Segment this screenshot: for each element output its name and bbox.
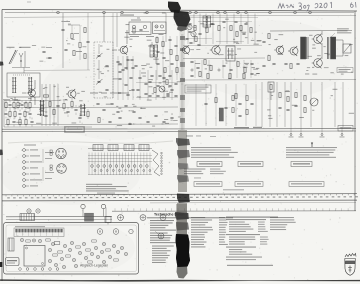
label box oscillator note [185, 85, 211, 93]
text 13.5kHz label [234, 127, 249, 128]
electrolytic C30 [219, 108, 223, 121]
text col3 body [229, 222, 245, 223]
wire T2 connections [112, 49, 117, 51]
board tuning capacitor square [24, 246, 45, 267]
value labels row [90, 93, 98, 94]
drive block 2 [85, 213, 94, 221]
pulley P1 [27, 209, 31, 213]
fold band dial crossing [177, 194, 190, 203]
IF transformer Tr4 [226, 46, 235, 61]
wire IF verticals [187, 14, 189, 45]
IF left bias parts [185, 37, 188, 39]
wave trap parts [84, 28, 86, 33]
boxed label oscillator freq [65, 127, 84, 132]
component row below Tr1 [63, 104, 65, 109]
dial cord top boxes [88, 148, 152, 150]
transistor T1 mixer [29, 90, 36, 97]
wire y70 horizontal [24, 69, 90, 71]
DIN socket B1 [56, 148, 66, 158]
board label box GE [6, 258, 20, 266]
potentiometer P1 [310, 98, 318, 106]
dial cord comb structure [88, 155, 152, 157]
wire output stage [270, 30, 352, 32]
transistor T2 [120, 46, 128, 54]
wire vertical x113 [112, 13, 114, 98]
oscillator box 1 [129, 22, 151, 35]
bias parts center-bottom [232, 96, 234, 101]
board edge connector strip [14, 228, 64, 237]
transistor T5 driver [276, 46, 284, 54]
wire screen line [62, 13, 64, 40]
IF interstage parts [117, 56, 119, 100]
wire second top rail [183, 15, 356, 17]
transistor T7 output [314, 35, 323, 44]
right scale ticks [114, 208, 116, 211]
oscillator box 2 parts [155, 25, 158, 28]
wire mid bus right [183, 57, 265, 60]
text under box [223, 189, 244, 190]
IF transformer Tr1 bars [40, 100, 42, 116]
detector extra parts [148, 80, 151, 82]
battery terminal points [290, 134, 292, 136]
text col2 values [219, 217, 225, 218]
fold band mid [178, 130, 187, 192]
pulley P2 [36, 209, 40, 213]
board bottom pad row [19, 268, 22, 271]
board IF can K1 [8, 238, 14, 251]
svg-text:Abgleich-Legeplan: Abgleich-Legeplan [80, 263, 108, 267]
boxed label row2 a [194, 182, 222, 187]
DIN socket B2 [57, 164, 67, 174]
detector stage resistor bank [138, 76, 141, 78]
text eff markers [186, 135, 193, 138]
resistor R3 [79, 43, 81, 48]
text col3 header [226, 217, 278, 218]
component value labels [101, 72, 104, 75]
annotation box speaker [337, 68, 353, 73]
text col1 freq table [152, 246, 174, 247]
trimmer point TP3 [160, 215, 166, 221]
fold specks upper [180, 36, 185, 40]
resistor R21 boxed pair [268, 82, 274, 92]
capacitor C2 [61, 28, 64, 30]
diode D2 [187, 24, 192, 29]
handwritten title Mini Boy 201 [278, 2, 356, 11]
transistor T1b [68, 90, 76, 98]
diode D1 circle [159, 86, 165, 92]
trimmer point TP4 [158, 233, 164, 239]
text col1 specs [150, 220, 174, 221]
text dial cord caption [86, 184, 112, 185]
PCB board outline [4, 223, 139, 275]
resistor R5 R6 C4 cluster + wires [41, 84, 43, 126]
board component pads [20, 238, 23, 241]
pulley P3 [81, 204, 85, 208]
text small left info [184, 169, 205, 170]
text header connectors [24, 145, 36, 146]
diode D3 [191, 31, 196, 36]
text col1 specs b [150, 233, 168, 234]
transistor T3 at fold [182, 46, 189, 53]
board inner edge [6, 225, 137, 272]
wire coil links [13, 74, 31, 76]
mixer-osc coupling parts column [156, 38, 158, 43]
boxed label BC type 1 [197, 162, 222, 167]
output transformer Tr6 [331, 37, 336, 59]
wire input bus [4, 100, 60, 102]
wire gang connects [98, 44, 100, 54]
earphone jack J1 [343, 44, 351, 53]
dial drive rail [6, 215, 112, 217]
IF amp component cluster [188, 22, 191, 24]
pulley P4 [101, 204, 105, 208]
text col2 labels [191, 217, 205, 218]
variable capacitor gang (dashed) [93, 42, 95, 98]
extra value labels [71, 38, 74, 41]
text footnote [227, 265, 273, 266]
boxed label bottom right [338, 126, 353, 132]
wire dial right rail [112, 210, 356, 212]
dial scale ticks [5, 195, 7, 197]
transistor T8 output [314, 59, 323, 68]
wire lower right verticals [261, 82, 263, 127]
text block transistor list A [191, 147, 231, 148]
annotation earphone text [337, 28, 349, 29]
IF transformer Tr2 [150, 45, 153, 57]
oscillator box 2 [153, 22, 167, 34]
wire bottom bus left [5, 123, 178, 126]
text labels oscillator [120, 15, 134, 16]
wire top supply rail with test points [5, 11, 354, 13]
connector pin list [23, 149, 26, 152]
ferrite antenna box [7, 73, 40, 97]
volume control network [279, 93, 281, 98]
margin blob 1 [0, 62, 4, 66]
driver transformer Tr5 [301, 37, 306, 59]
text col2b extras [270, 217, 294, 218]
AGC network cluster [190, 60, 193, 62]
text wide line under title [147, 217, 233, 218]
wire T1 leads [34, 80, 36, 89]
fold band lower taper [177, 266, 188, 279]
resistor/capacitor bank input stage [3, 99, 10, 100]
pointer mark [311, 143, 313, 148]
wire x88 vertical [87, 13, 89, 70]
text col3 body3 [226, 247, 256, 248]
boxed label row2 b [235, 182, 263, 187]
text block transistor list B [286, 147, 337, 148]
T2 bias network [118, 62, 121, 64]
fold overlay smudge [176, 204, 187, 236]
margin black tab [0, 262, 3, 267]
IF transformer Tr1b bars [80, 104, 82, 116]
trimmer point TP2 [140, 215, 146, 221]
board top right cans [97, 229, 103, 235]
coil L1 L2 ferrite windings [12, 77, 14, 93]
wire Tr2 leads [151, 42, 153, 45]
fold band text-area smudge [177, 203, 187, 235]
transistor T6 [290, 47, 298, 55]
dial cord right zigzag [152, 150, 158, 154]
text col3 body2 [226, 234, 260, 235]
trimmer point TP1 [118, 215, 124, 221]
wire center drops [195, 84, 197, 126]
fold band heavy blob [176, 234, 191, 267]
boxed label right row2 [289, 182, 324, 187]
driver bias parts [262, 40, 265, 42]
crest emblem [345, 254, 356, 276]
transistor T4 [212, 46, 220, 54]
fold tape blotch top [168, 2, 181, 14]
board vertical link [105, 208, 107, 223]
boxed label BC type 3 [291, 162, 312, 167]
drive end bracket [105, 217, 111, 223]
IF transformer Tr3 [203, 16, 206, 27]
drive block 1 [20, 214, 35, 221]
lower component rows [5, 106, 178, 109]
fold streak upper [180, 30, 186, 130]
margin blob 2 [0, 150, 3, 156]
wire antenna leads [12, 67, 30, 69]
boxed label BC type 2 [238, 162, 263, 167]
antenna A1 [9, 50, 16, 64]
oscillator box 1 parts [132, 25, 135, 28]
